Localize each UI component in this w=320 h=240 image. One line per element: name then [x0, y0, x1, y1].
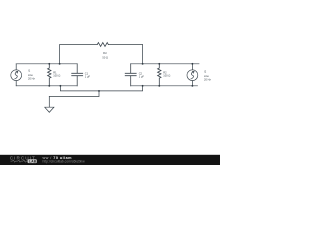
svg-text:20 Hz: 20 Hz [28, 77, 35, 81]
svg-text:100 Ω: 100 Ω [53, 73, 60, 77]
svg-text:http://circuitlab.com/c6kzbhw: http://circuitlab.com/c6kzbhw [43, 160, 86, 164]
svg-text:sine: sine [28, 73, 33, 77]
svg-text:20 Hz: 20 Hz [204, 78, 211, 82]
svg-text:LAB: LAB [29, 159, 37, 163]
svg-text:50 Ω: 50 Ω [102, 56, 108, 60]
svg-text:sine: sine [204, 74, 209, 78]
svg-text:Rd: Rd [103, 51, 107, 55]
svg-text:100 Ω: 100 Ω [163, 73, 170, 77]
svg-text:1 μF: 1 μF [85, 74, 91, 78]
svg-text:1 μF: 1 μF [139, 74, 145, 78]
